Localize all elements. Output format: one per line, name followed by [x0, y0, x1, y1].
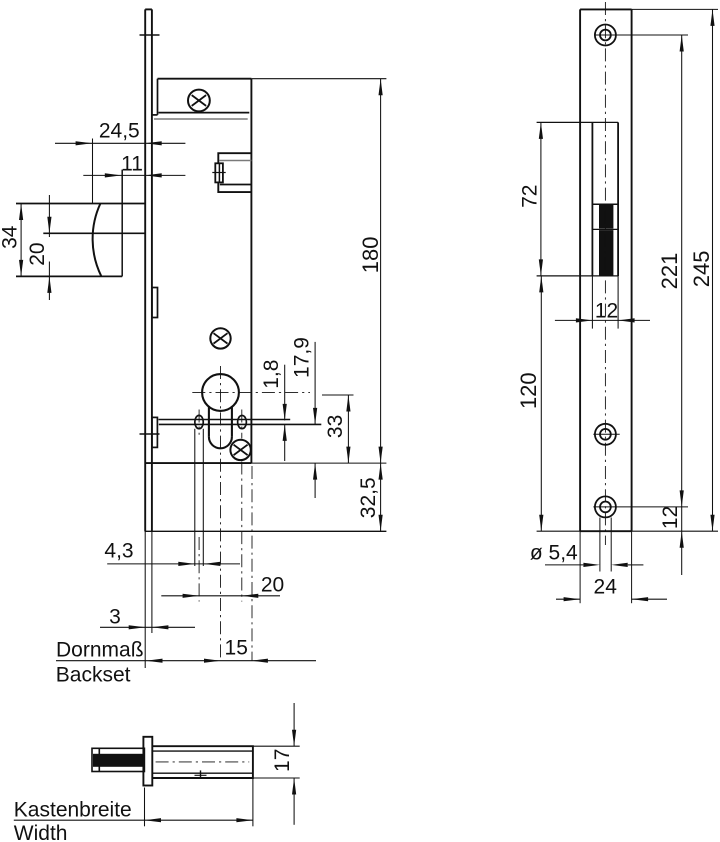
svg-text:221: 221 [657, 253, 682, 290]
svg-text:17,9: 17,9 [291, 337, 314, 378]
svg-text:17: 17 [271, 749, 294, 772]
svg-text:34: 34 [0, 225, 22, 249]
svg-text:245: 245 [689, 251, 714, 288]
svg-text:4,3: 4,3 [104, 539, 133, 562]
svg-text:24,5: 24,5 [99, 120, 140, 143]
svg-text:1,8: 1,8 [260, 360, 283, 389]
svg-text:Dornmaß: Dornmaß [56, 639, 144, 662]
svg-text:72: 72 [519, 185, 542, 208]
svg-text:15: 15 [225, 637, 248, 660]
svg-text:Backset: Backset [56, 664, 131, 687]
svg-text:120: 120 [516, 372, 541, 409]
svg-text:33: 33 [324, 415, 347, 438]
svg-text:12: 12 [659, 506, 682, 529]
svg-text:ø 5,4: ø 5,4 [530, 542, 578, 565]
svg-text:Kastenbreite: Kastenbreite [14, 798, 132, 821]
svg-text:11: 11 [121, 153, 143, 176]
svg-text:20: 20 [26, 242, 49, 265]
svg-text:12: 12 [595, 300, 618, 323]
svg-text:Width: Width [14, 822, 68, 842]
svg-text:3: 3 [109, 606, 121, 629]
svg-text:180: 180 [358, 237, 383, 274]
svg-text:24: 24 [594, 575, 618, 598]
svg-text:32,5: 32,5 [357, 477, 380, 518]
svg-text:20: 20 [261, 574, 284, 597]
